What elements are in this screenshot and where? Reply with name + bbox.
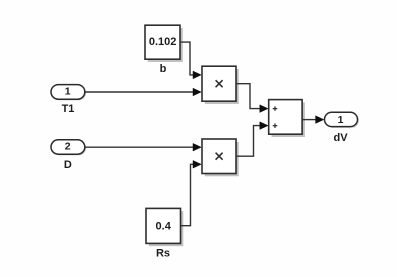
svg-text:T1: T1 — [62, 103, 75, 115]
svg-text:1: 1 — [65, 85, 71, 97]
outport 1 (dV) — [325, 112, 359, 128]
inport 1 (T1) — [51, 85, 86, 101]
svg-text:0.102: 0.102 — [149, 36, 177, 48]
constant block Rs value 0.4 — [146, 208, 183, 246]
wire D to product P2 input 1 — [85, 143, 201, 151]
wire product P2 to sum input 2 — [237, 122, 268, 156]
svg-text:dV: dV — [333, 132, 348, 144]
inport 2 (D) — [51, 140, 86, 156]
svg-text:0.4: 0.4 — [156, 220, 172, 232]
wire constant Rs to product P2 input 2 — [181, 161, 201, 226]
svg-text:D: D — [64, 159, 72, 171]
wire product P1 to sum input 1 — [237, 84, 268, 113]
wire T1 to product P1 input 2 — [85, 88, 201, 96]
product block P1 (x) — [202, 66, 239, 104]
constant block b value 0.102 — [145, 25, 183, 62]
sum block (+ +) — [269, 100, 305, 137]
wire constant b to product P1 input 1 — [181, 42, 202, 79]
product block P2 (x) — [202, 139, 239, 176]
wire sum to outport dV — [303, 116, 324, 124]
svg-text:Rs: Rs — [156, 248, 170, 260]
svg-text:1: 1 — [338, 114, 344, 126]
svg-text:b: b — [160, 63, 167, 75]
svg-text:2: 2 — [65, 141, 71, 153]
